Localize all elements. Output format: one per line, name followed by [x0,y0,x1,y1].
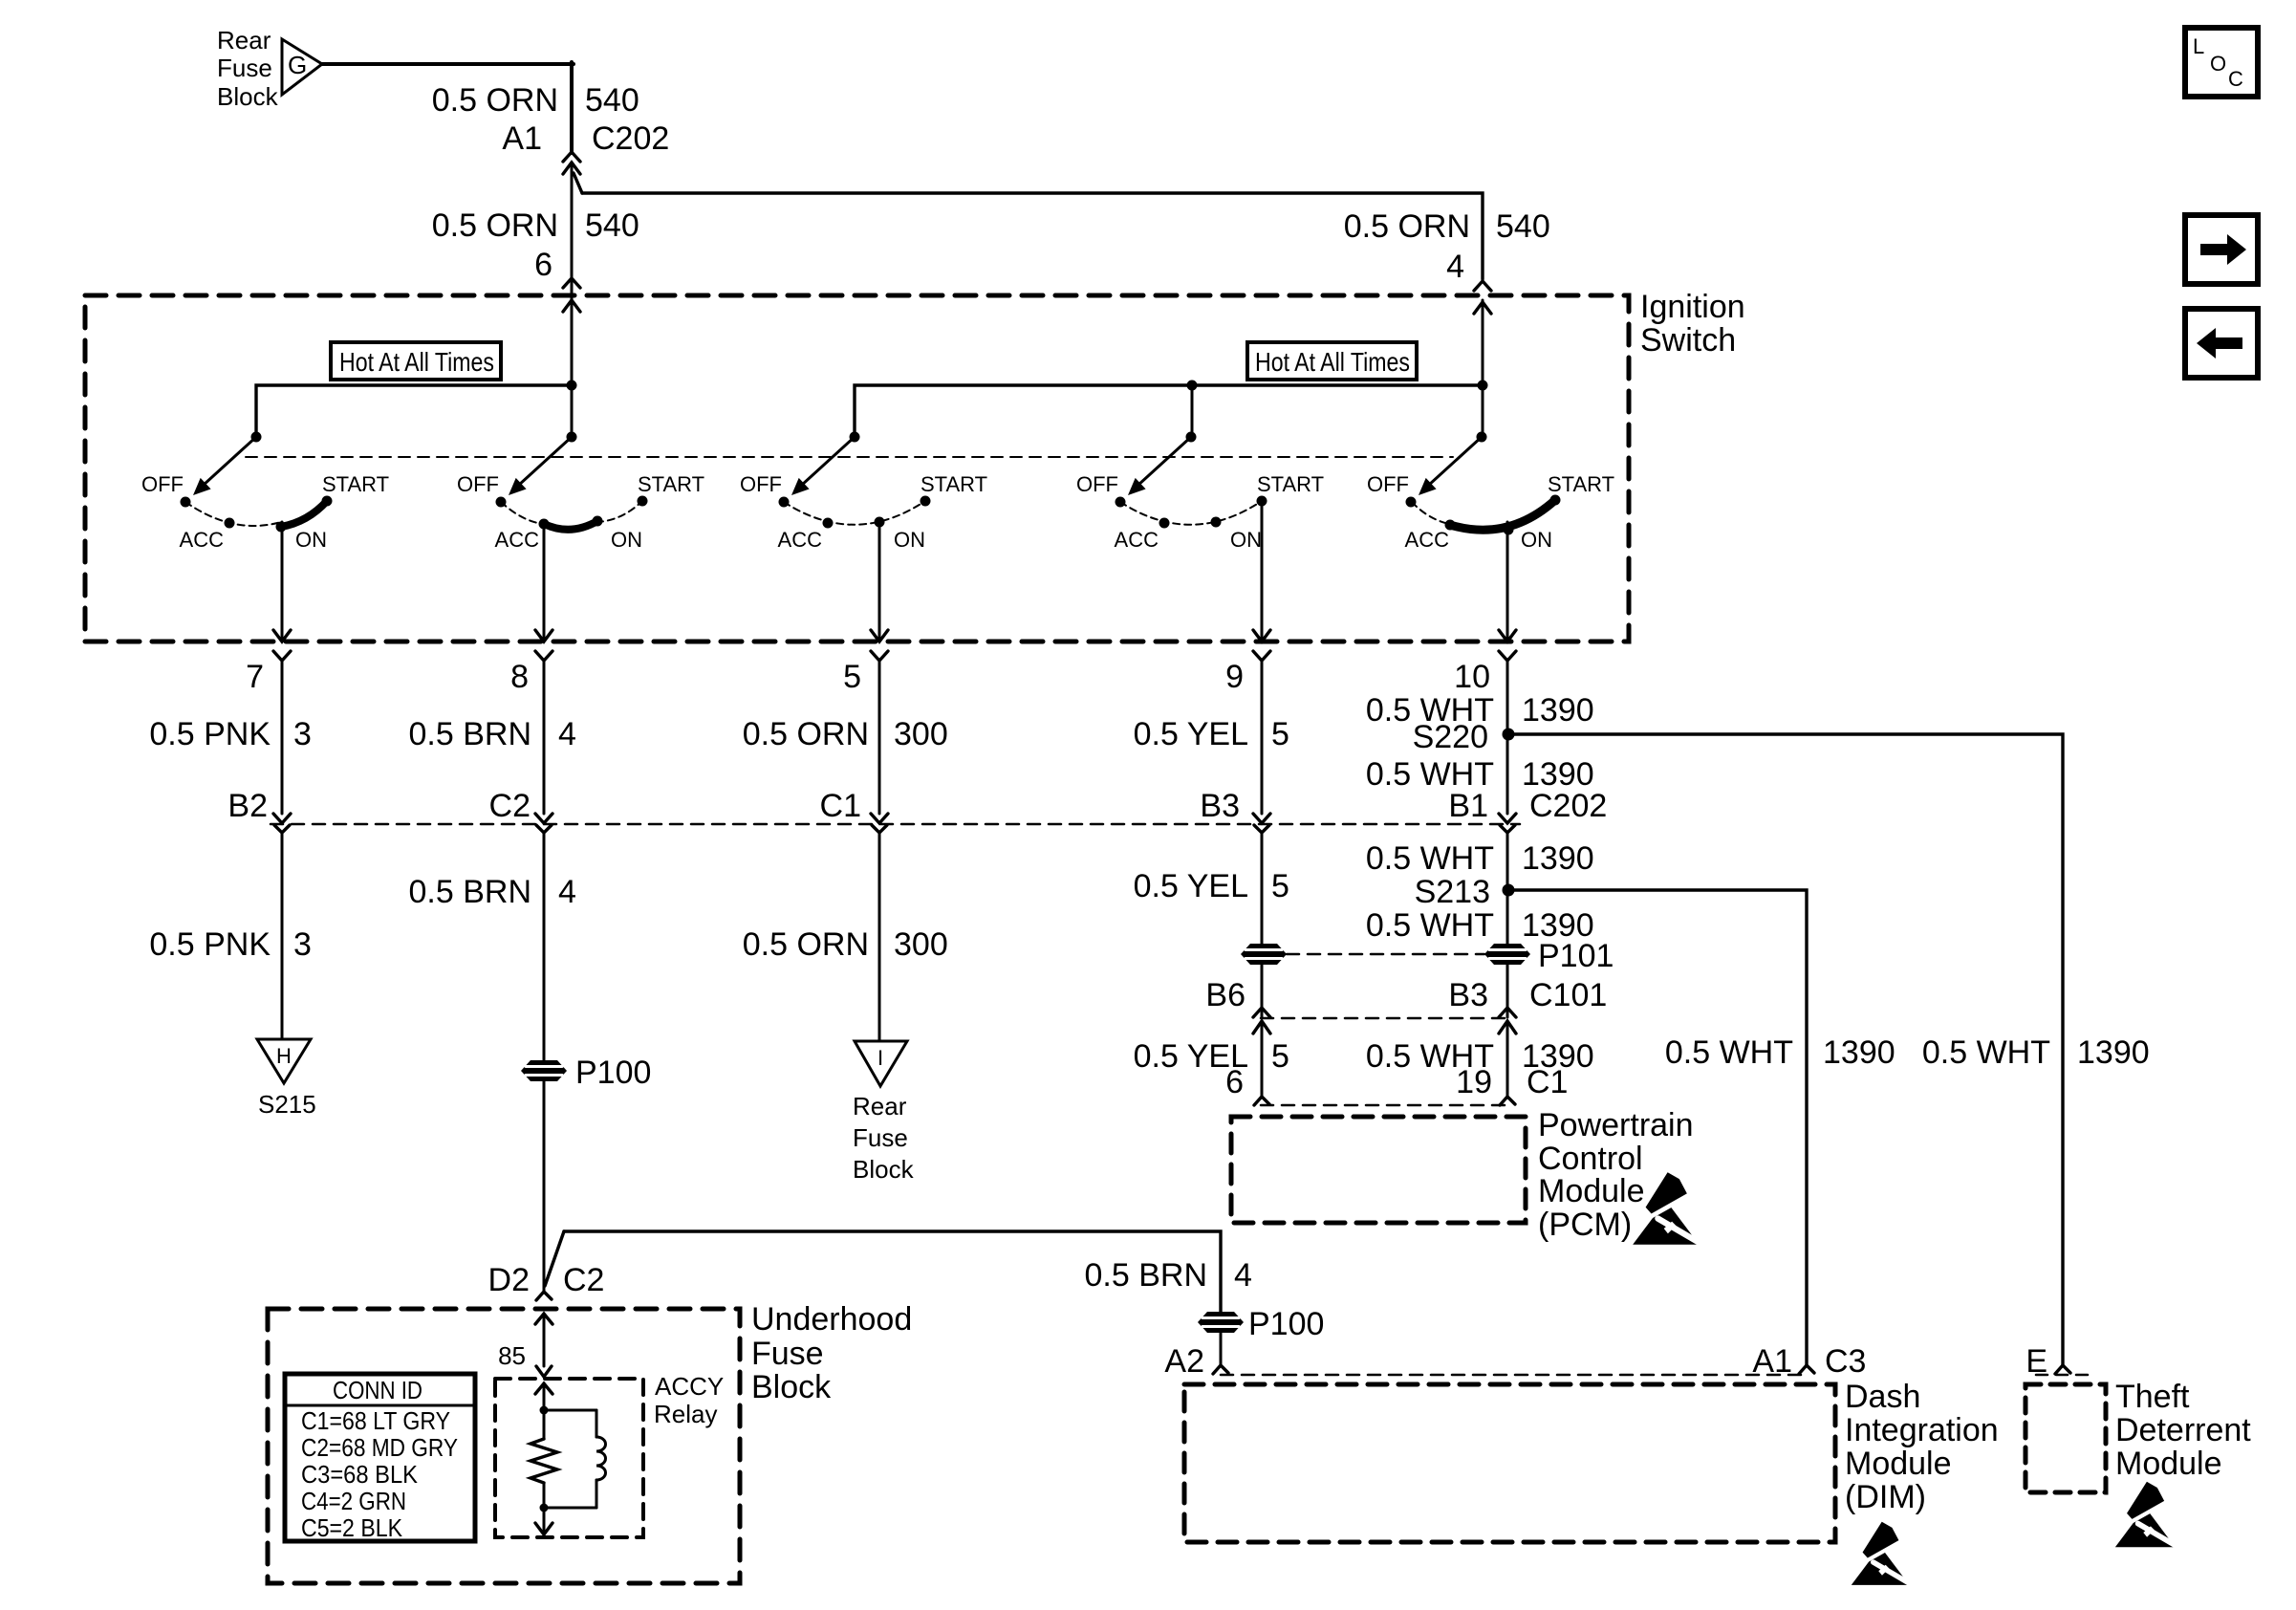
ESD symbol DIM [1852,1519,1910,1585]
switch 1 wiper arrowhead [193,478,211,495]
connector DIM dashed line [1221,1374,1807,1377]
arrowhead into underhood box [535,1314,552,1324]
svg-text:3: 3 [293,716,312,752]
switch 5 output wire to box edge [1506,522,1509,640]
Hot At All Times box (right) [1247,342,1417,380]
wire 0.5 BRN branch to A2 [564,1231,1221,1312]
connector P101 dashed link [1287,953,1484,956]
switch 1 thick contact arc ON-START [281,501,327,527]
svg-text:C1: C1 [820,788,861,824]
wire 0.5 ORN lower to rear fuse block [878,833,881,1041]
wire branch diagonal at D2 [545,1231,564,1286]
switch 2 wiper arm [518,437,572,486]
wire 85 feed [543,1314,546,1366]
switch 3 dashed arc OFF-START [784,501,925,525]
switch 3 wiper arm [801,437,855,486]
connector fork at relay 85 [536,1366,552,1377]
svg-text:ACC: ACC [180,528,225,552]
powertrain control module dashed box [1231,1117,1526,1223]
connector chevron pin6 above ignition box [563,278,580,288]
switch 2 OFF contact [496,497,507,508]
connector C202 dashed line [271,823,1520,826]
wire A2 below grommet [1220,1333,1223,1365]
switch 4 output arrowhead at box bottom [1253,630,1270,642]
switch 5 dashed arc OFF-ACC [1412,502,1449,524]
switch 2 pivot node [567,432,577,443]
junction node relay top [540,1406,549,1415]
svg-text:Rear: Rear [217,26,271,54]
wire pin6 to pivot [571,385,574,437]
svg-text:8: 8 [510,659,529,695]
switch 4 wiper arrowhead [1128,478,1146,495]
wire resistor to bottom node [543,1483,546,1508]
svg-text:S213: S213 [1415,874,1490,910]
switch 4 connector fork below box [1253,651,1270,661]
svg-text:Theft: Theft [2115,1379,2190,1415]
svg-text:9: 9 [1225,659,1244,695]
connector C202 chevron at A1 [563,152,580,162]
svg-text:C4=2 GRN: C4=2 GRN [301,1487,406,1515]
switch 1 wiper arm [203,437,256,486]
svg-text:Switch: Switch [1640,322,1736,359]
wire pin9 below grommet [1261,965,1264,1017]
arrowhead pin6 into ignition box [563,300,580,312]
wire pin10 lower [1506,1021,1509,1097]
svg-text:S215: S215 [258,1090,316,1119]
svg-text:B6: B6 [1205,977,1245,1013]
relay coil (inductor) [596,1437,606,1480]
svg-text:H: H [276,1044,292,1068]
switch 4 pivot node [1186,432,1197,443]
wire ORN 540 pin6 segment [571,163,574,385]
svg-text:4: 4 [1446,249,1464,285]
svg-text:OFF: OFF [740,472,782,496]
theft deterrent module dashed box [2025,1384,2106,1492]
svg-text:85: 85 [498,1341,526,1370]
switch 5 connector fork below box [1499,651,1516,661]
svg-text:OFF: OFF [1367,472,1409,496]
switch 1 ACC contact [225,518,235,529]
wire pin10 below grommet [1506,965,1509,1017]
switch 4 OFF contact [1116,497,1126,508]
grommet P101 on pin10 wire [1484,944,1530,965]
junction node pin6/bus [567,381,577,391]
svg-text:Rear: Rear [853,1092,907,1120]
svg-text:Block: Block [217,82,279,111]
switch 3 OFF contact [779,497,790,508]
LOC legend box [2185,28,2258,97]
wire 0.5 ORN 540 branch to pin4 [582,193,1483,279]
wire 0.5 BRN pin8 upper + C202 crossing [543,661,546,814]
svg-text:5: 5 [1271,868,1289,904]
svg-text:C5=2 BLK: C5=2 BLK [301,1513,403,1542]
switch 1 connector fork below box [273,651,291,661]
svg-text:10: 10 [1454,659,1490,695]
CONN ID table box [285,1374,475,1541]
switch 1 ON contact [276,522,287,533]
pin10 C202 crossing arrows [1499,814,1516,823]
wire coil bottom branch [596,1480,598,1508]
svg-text:Module: Module [2115,1446,2222,1482]
wire pin10 below C202 [1506,833,1509,885]
svg-text:Underhood: Underhood [751,1301,912,1338]
arrowhead below C101 (pin9) [1253,1021,1270,1033]
switch 5 thick contact arc ACC-START [1450,500,1555,530]
svg-text:D2: D2 [488,1262,530,1298]
svg-text:ON: ON [894,528,925,552]
wire ORN 540 vertical A1 segment [570,62,574,153]
switch 5 wiper arm [1428,437,1482,486]
svg-text:O: O [2210,52,2226,76]
svg-text:Powertrain: Powertrain [1538,1107,1694,1143]
connector fork at D2 [536,1292,552,1300]
switch 5 OFF contact [1406,497,1417,508]
svg-text:0.5 BRN: 0.5 BRN [409,716,532,752]
svg-text:Module: Module [1538,1173,1645,1209]
wire pin4 to pivot [1482,385,1484,437]
svg-text:ACC: ACC [778,528,823,552]
switch 3 wiper arrowhead [791,478,810,495]
grommet P100 on pin8 wire [521,1060,567,1081]
svg-text:0.5 BRN: 0.5 BRN [409,874,532,910]
underhood fuse block dashed box [268,1309,740,1583]
svg-text:0.5 PNK: 0.5 PNK [149,926,271,963]
wire 0.5 ORN pin5 upper + C202 crossing [878,661,881,814]
svg-text:START: START [322,472,389,496]
relay resistor [531,1439,557,1483]
svg-text:C2=68 MD GRY: C2=68 MD GRY [301,1433,458,1462]
wire 0.5 BRN below C202 [543,833,546,1060]
svg-text:START: START [638,472,704,496]
svg-text:5: 5 [843,659,861,695]
connector fork at A1 [1799,1365,1814,1374]
switch 3 ON contact [875,517,885,528]
switch 2 dashed arc OFF-ACC [501,502,543,524]
svg-text:19: 19 [1456,1064,1492,1100]
switch 1 output arrowhead at box bottom [273,630,291,642]
svg-text:Block: Block [751,1369,832,1405]
switch 2 ON contact [593,516,603,527]
svg-text:Fuse: Fuse [751,1336,824,1372]
svg-text:C1: C1 [1527,1064,1568,1100]
svg-text:0.5 YEL: 0.5 YEL [1134,868,1248,904]
switch 3 START contact [921,496,931,507]
wire pin10 upper [1506,661,1509,814]
svg-text:L: L [2193,34,2204,58]
svg-text:1390: 1390 [1522,840,1594,877]
switch 2 thick contact arc ACC-ON [544,521,597,530]
svg-text:A2: A2 [1164,1343,1204,1380]
svg-text:4: 4 [1234,1257,1252,1294]
svg-text:ACCY: ACCY [655,1372,724,1401]
svg-text:1390: 1390 [1823,1034,1895,1071]
dash integration module dashed box [1184,1384,1835,1542]
switch 3 pivot node [850,432,860,443]
switch 1 pivot node [251,432,262,443]
switch 1 OFF contact [181,497,191,508]
wire coil top branch [544,1409,596,1412]
svg-text:C3=68 BLK: C3=68 BLK [301,1460,419,1489]
svg-text:ACC: ACC [495,528,540,552]
svg-text:6: 6 [534,247,552,283]
svg-text:Integration: Integration [1845,1412,1999,1448]
svg-text:6: 6 [1225,1064,1244,1100]
svg-text:C202: C202 [1529,788,1607,824]
svg-text:OFF: OFF [141,472,184,496]
svg-text:Relay: Relay [654,1400,717,1428]
switch 2 ACC contact [539,519,550,530]
connector fork at E [2055,1365,2070,1374]
svg-text:ACC: ACC [1115,528,1159,552]
arrowhead relay output down [535,1523,552,1534]
svg-text:B3: B3 [1448,977,1488,1013]
connector PCM C1 dashed line [1261,1104,1508,1107]
svg-text:0.5 BRN: 0.5 BRN [1085,1257,1208,1294]
svg-text:Fuse: Fuse [853,1123,908,1152]
wire 0.5 YEL lower [1261,1021,1264,1097]
connector C101 dashed line [1261,1017,1508,1020]
junction node relay bottom [540,1504,549,1512]
wire switch4 feed to pivot [1191,385,1194,437]
svg-text:0.5 ORN: 0.5 ORN [743,716,869,752]
switch 2 START contact [638,496,648,507]
svg-text:A1: A1 [1752,1343,1792,1380]
wire S220 to theft deterrent (right) [1508,734,2063,1365]
svg-text:P100: P100 [1248,1306,1324,1342]
svg-text:OFF: OFF [1076,472,1118,496]
svg-text:0.5 ORN: 0.5 ORN [432,207,558,244]
svg-text:C101: C101 [1529,977,1607,1013]
svg-text:Dash: Dash [1845,1379,1920,1415]
switch 2 output arrowhead at box bottom [535,630,552,642]
grommet P100 on A2 wire [1198,1312,1244,1333]
svg-text:A1: A1 [502,120,542,157]
left-arrow legend box [2185,309,2258,378]
switch 1 dashed arc OFF-ON [185,502,281,526]
svg-text:3: 3 [293,926,312,963]
arrowhead into relay [535,1383,552,1394]
connector chevron pin4 above ignition box [1474,281,1491,291]
connector fork at PCM C1 (pin9) [1254,1097,1269,1105]
off-page connector triangle G [282,39,322,95]
svg-text:Fuse: Fuse [217,54,272,82]
svg-text:I: I [877,1046,883,1070]
svg-text:5: 5 [1271,1038,1289,1075]
svg-text:7: 7 [246,659,264,695]
bus wire left (hot feed pin6) [256,385,572,437]
svg-text:C: C [2228,67,2243,91]
connector theft dashed stub [2036,1374,2091,1377]
svg-text:OFF: OFF [457,472,499,496]
svg-text:Hot At All Times: Hot At All Times [339,347,494,377]
switch 5 wiper arrowhead [1419,478,1437,495]
ignition switch dashed box [85,295,1629,642]
svg-text:ON: ON [1521,528,1552,552]
svg-text:B3: B3 [1200,788,1240,824]
connector fork at A2 [1213,1365,1228,1374]
svg-text:(PCM): (PCM) [1538,1207,1632,1243]
switch 3 output arrowhead at box bottom [871,630,888,642]
svg-text:Control: Control [1538,1141,1643,1177]
switch 5 START contact [1550,495,1561,506]
wire relay output [543,1508,546,1534]
svg-text:540: 540 [585,82,639,119]
wire pin10 to P101 [1506,890,1509,944]
switch 4 START contact [1257,496,1267,507]
switch 2 connector fork below box [535,651,552,661]
wire branch diagonal at A1 [574,173,582,193]
switch 4 ACC contact [1159,518,1170,529]
svg-text:C2: C2 [489,788,531,824]
switch 5 ACC contact [1445,520,1456,531]
connector chevron above C101 (pin9) [1253,1008,1270,1017]
svg-text:0.5 WHT: 0.5 WHT [1366,840,1494,877]
connector fork at PCM C1 (pin10) [1500,1097,1515,1105]
svg-text:C1=68 LT GRY: C1=68 LT GRY [301,1406,450,1435]
svg-text:5: 5 [1271,716,1289,752]
wire 0.5 PNK pin7 upper + C202 crossing [281,661,284,814]
svg-text:P101: P101 [1538,938,1614,974]
svg-text:C3: C3 [1825,1343,1866,1380]
grommet P101 on pin9 wire [1241,944,1287,965]
switch pivot dashed line [246,456,1453,458]
svg-text:0.5 WHT: 0.5 WHT [1922,1034,2050,1071]
svg-text:START: START [1257,472,1324,496]
switch 5 pivot node [1477,432,1487,443]
svg-text:S220: S220 [1413,719,1488,755]
wire S213 to DIM (right) [1508,890,1807,1365]
svg-text:B2: B2 [227,788,268,824]
wire arrowhead below C202 [563,163,580,174]
svg-text:B1: B1 [1448,788,1488,824]
svg-text:C202: C202 [592,120,669,157]
switch 4 wiper arm [1137,437,1191,486]
svg-text:START: START [1548,472,1614,496]
svg-text:0.5 WHT: 0.5 WHT [1366,907,1494,944]
svg-text:C2: C2 [563,1262,604,1298]
svg-text:CONN ID: CONN ID [333,1376,422,1404]
switch 1 output wire to box edge [281,522,284,640]
svg-text:Block: Block [853,1155,915,1184]
svg-text:(DIM): (DIM) [1845,1479,1926,1515]
svg-text:0.5 YEL: 0.5 YEL [1134,716,1248,752]
svg-text:0.5 PNK: 0.5 PNK [149,716,271,752]
svg-text:ON: ON [295,528,327,552]
svg-text:300: 300 [894,716,948,752]
wire 0.5 ORN 540 from G to corner [322,62,574,66]
svg-text:0.5 WHT: 0.5 WHT [1665,1034,1793,1071]
svg-text:0.5 ORN: 0.5 ORN [743,926,869,963]
svg-text:ACC: ACC [1405,528,1450,552]
switch 3 output wire to box edge [878,522,881,640]
connector chevron above C101 (pin10) [1499,1008,1516,1017]
junction node switch4 feed [1187,381,1198,391]
svg-text:Deterrent: Deterrent [2115,1412,2251,1448]
right-arrow legend box [2185,215,2258,284]
svg-text:4: 4 [558,874,576,910]
splice node S220 [1503,729,1515,741]
junction node pin4/bus [1478,381,1488,391]
arrowhead below C101 (pin10) [1499,1021,1516,1033]
switch 4 output wire to box edge [1261,501,1264,640]
svg-text:ON: ON [611,528,642,552]
wire relay coil feed [543,1383,546,1439]
svg-text:300: 300 [894,926,948,963]
ACCY relay dashed box [495,1379,643,1537]
svg-text:G: G [288,51,307,79]
switch 5 output arrowhead at box bottom [1499,630,1516,642]
switch 3 connector fork below box [871,651,888,661]
wire 0.5 BRN to D2 [543,1081,546,1293]
svg-text:Hot At All Times: Hot At All Times [1255,347,1410,377]
ESD symbol theft [2115,1479,2176,1547]
wire 0.5 PNK lower to S215 [281,833,284,1039]
svg-text:0.5 ORN: 0.5 ORN [432,82,558,119]
svg-text:P100: P100 [575,1055,651,1091]
svg-text:START: START [921,472,987,496]
svg-text:540: 540 [1496,208,1550,245]
switch 5 ON contact [1504,525,1514,535]
svg-text:Ignition: Ignition [1640,289,1745,325]
Hot At All Times box (left) [331,342,501,380]
switch 4 dashed arc OFF-START [1120,501,1262,525]
bus wire right (hot feed pin4) [855,385,1483,437]
off-page triangle I to rear fuse block [855,1041,907,1086]
switch 2 output wire to box edge [543,523,546,640]
svg-text:4: 4 [558,716,576,752]
svg-text:1390: 1390 [2077,1034,2150,1071]
ESD symbol PCM [1633,1169,1699,1245]
svg-text:540: 540 [585,207,639,244]
wire pin4 into box [1482,300,1484,385]
svg-text:Module: Module [1845,1446,1952,1482]
switch 1 START contact [322,496,333,507]
wire 0.5 YEL mid [1261,833,1264,944]
svg-text:ON: ON [1230,528,1262,552]
svg-text:1390: 1390 [1522,692,1594,729]
switch 2 dashed arc ON-START [596,501,642,522]
arrowhead pin4 into ignition box [1474,302,1491,314]
switch 2 wiper arrowhead [509,478,527,495]
splice triangle H [257,1039,311,1083]
switch 3 ACC contact [823,518,834,529]
switch 4 ON contact [1211,517,1222,528]
svg-text:0.5 ORN: 0.5 ORN [1344,208,1470,245]
splice node S213 [1503,884,1515,897]
wire 0.5 YEL pin9 upper + C202 crossing [1261,661,1264,814]
